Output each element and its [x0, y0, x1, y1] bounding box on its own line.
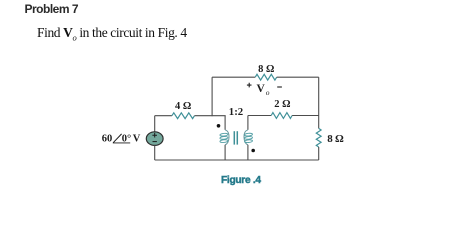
transformer primary bottom lead [224, 145, 226, 160]
heading Problem 7 [25, 2, 79, 16]
voltage source VS [146, 116, 163, 160]
resistor 2ohm zigzag [271, 113, 292, 119]
label minus sign of Vo [277, 86, 282, 88]
wire secondary row left segment [248, 115, 271, 117]
wire right vertical lower [318, 147, 320, 160]
heading Find Vo in the circuit in Fig. 4 [37, 25, 187, 43]
transformer core lines [234, 131, 237, 144]
svg-text:V: V [257, 83, 266, 95]
wire secondary row right segment [292, 115, 319, 117]
svg-text:2 Ω: 2 Ω [274, 99, 290, 110]
svg-text:8 Ω: 8 Ω [327, 133, 344, 145]
wire right vertical upper [318, 77, 320, 128]
wire main row 4ohm to primary corner [195, 115, 226, 117]
svg-text:4 Ω: 4 Ω [175, 101, 191, 112]
transformer primary top lead [224, 116, 226, 130]
wire main row source to 4ohm [155, 115, 172, 117]
resistor 8ohm top zigzag [255, 74, 277, 80]
transformer secondary bottom lead [247, 145, 249, 160]
svg-text:V: V [133, 134, 141, 145]
wire top branch left segment [212, 76, 255, 78]
transformer primary coil [220, 130, 229, 145]
wire left vertical from top branch to main row [211, 77, 213, 116]
svg-text:Figure .4: Figure .4 [221, 175, 261, 186]
transformer polarity dot secondary [251, 149, 255, 153]
transformer polarity dot primary [217, 124, 221, 128]
label 60 angle 0 deg V [102, 133, 141, 144]
transformer secondary top lead [247, 116, 249, 130]
resistor 8ohm right vertical zigzag [316, 128, 321, 147]
svg-text:o: o [266, 88, 270, 97]
label plus sign of Vo [247, 83, 252, 88]
wire bottom rail [155, 159, 319, 161]
label Vo [257, 83, 270, 97]
svg-text:60: 60 [102, 133, 113, 144]
wire top branch right segment [277, 76, 319, 78]
svg-text:1:2: 1:2 [229, 106, 243, 118]
svg-text:8 Ω: 8 Ω [258, 64, 274, 75]
transformer secondary coil [244, 130, 253, 145]
resistor 4ohm zigzag [172, 113, 195, 119]
